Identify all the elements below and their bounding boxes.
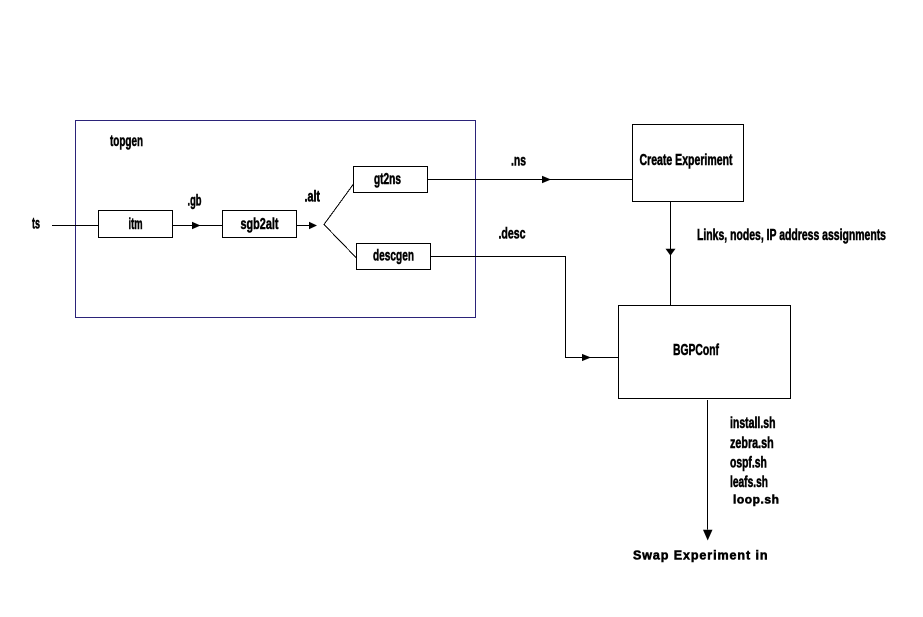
box sgb2alt [223, 211, 297, 238]
svg-text:install.sh: install.sh [730, 415, 776, 432]
svg-text:gt2ns: gt2ns [374, 171, 401, 188]
svg-text:leafs.sh: leafs.sh [730, 474, 768, 491]
svg-text:Swap Experiment in: Swap Experiment in [633, 549, 768, 563]
arrowhead sgb2alt output [309, 222, 317, 229]
arrowhead .ns wire [542, 176, 551, 183]
wire Create Experiment to BGPConf [670, 202, 672, 306]
wire ts to itm [52, 225, 99, 227]
box gt2ns [354, 167, 428, 193]
svg-text:topgen: topgen [110, 133, 143, 150]
svg-text:.alt: .alt [305, 189, 321, 206]
wire branch to gt2ns [324, 184, 354, 225]
svg-text:BGPConf: BGPConf [673, 342, 719, 359]
box itm [99, 211, 173, 238]
wire descgen to BGPConf elbow [431, 257, 619, 358]
svg-text:Links, nodes, IP address assig: Links, nodes, IP address assignments [697, 227, 886, 244]
box BGPConf [619, 306, 791, 399]
wire sgb2alt to branch point [297, 225, 310, 227]
svg-text:ts: ts [32, 216, 40, 233]
box descgen [357, 244, 431, 270]
svg-text:zebra.sh: zebra.sh [730, 435, 774, 452]
box Create Experiment [633, 125, 744, 202]
svg-text:loop.sh: loop.sh [733, 493, 779, 507]
svg-text:.gb: .gb [188, 193, 202, 210]
arrowhead down into BGPConf [666, 249, 676, 256]
arrowhead .desc into BGPConf [582, 354, 591, 361]
arrowhead itm to sgb2alt [192, 222, 201, 229]
container box topgen [76, 121, 476, 318]
svg-text:sgb2alt: sgb2alt [241, 216, 279, 233]
svg-text:Create Experiment: Create Experiment [640, 152, 733, 169]
wire BGPConf down to swap [707, 400, 709, 530]
svg-text:descgen: descgen [373, 248, 414, 265]
wire branch to descgen [324, 225, 357, 259]
wire gt2ns to Create Experiment [428, 179, 633, 181]
svg-text:.desc: .desc [499, 226, 526, 243]
svg-text:itm: itm [129, 216, 143, 233]
svg-text:.ns: .ns [511, 153, 526, 170]
arrowhead down to swap [703, 530, 713, 541]
svg-text:ospf.sh: ospf.sh [730, 455, 767, 472]
wire itm to sgb2alt [173, 225, 223, 227]
